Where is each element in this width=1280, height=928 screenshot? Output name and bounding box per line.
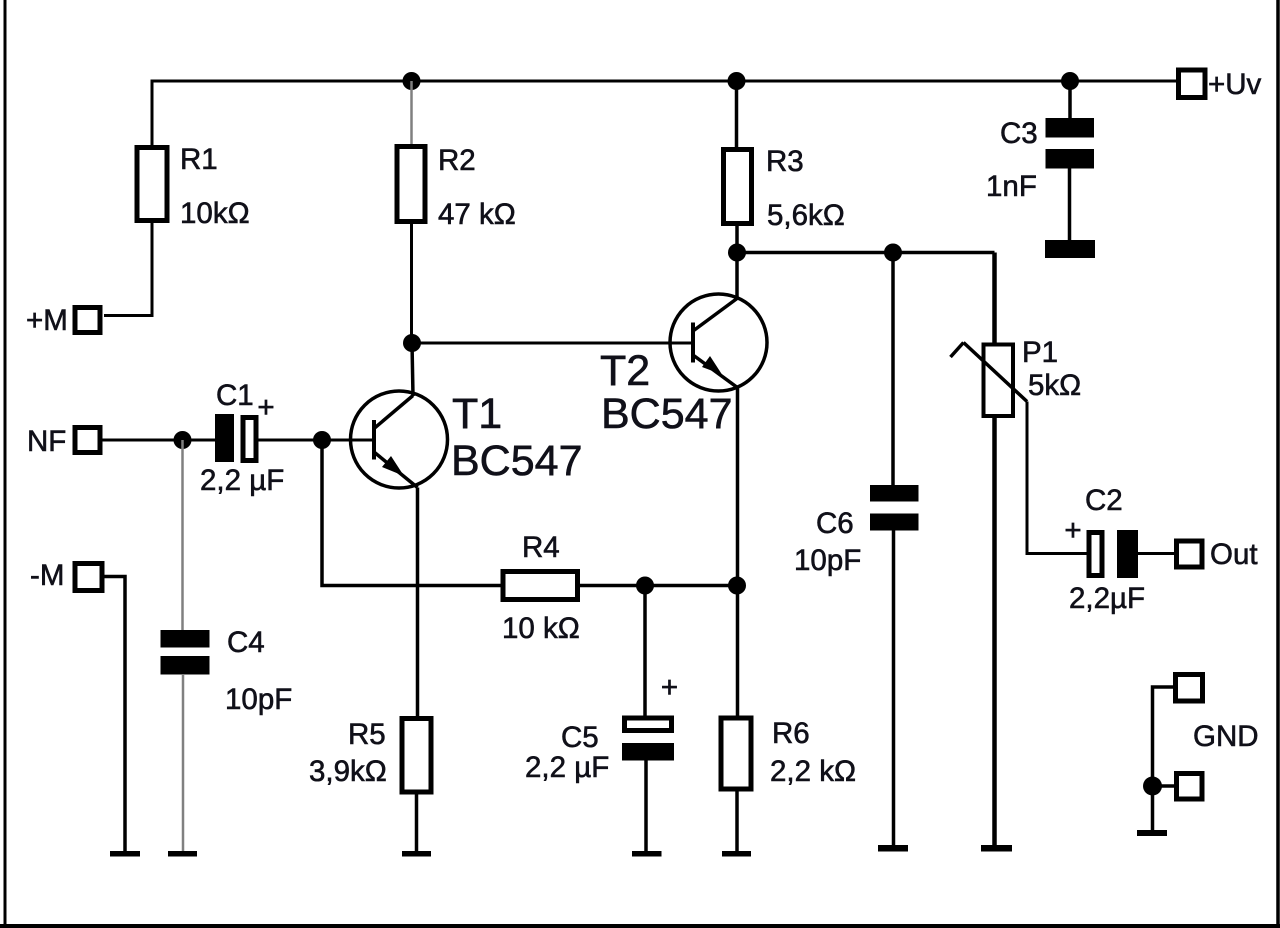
ground bar under R5	[402, 851, 431, 857]
capacitor C3	[986, 81, 1095, 258]
terminal +M	[26, 304, 100, 337]
svg-text:C5: C5	[561, 721, 599, 754]
ground bar under -M	[110, 851, 140, 857]
svg-text:T2: T2	[600, 347, 650, 395]
wire collector row to P1	[737, 251, 995, 255]
wire R6 to ground bar	[735, 789, 739, 851]
ground bar under C5	[632, 851, 662, 857]
svg-text:+: +	[661, 671, 678, 704]
svg-text:C1: C1	[216, 379, 254, 412]
svg-text:NF: NF	[27, 425, 66, 458]
wire node to T2 base	[412, 342, 693, 345]
node on rail above C3	[1061, 72, 1079, 90]
capacitor C4	[161, 626, 293, 716]
wire NF to C1	[103, 439, 216, 442]
ground bar under C4	[168, 851, 197, 857]
terminal GND top square	[1176, 675, 1203, 702]
svg-text:R6: R6	[772, 717, 810, 750]
wire R5 to ground bar	[415, 792, 419, 851]
svg-text:+Uv: +Uv	[1208, 68, 1262, 101]
svg-text:P1: P1	[1022, 336, 1058, 369]
capacitor C6	[794, 253, 919, 846]
terminal Out	[1177, 538, 1258, 571]
svg-text:10pF: 10pF	[794, 544, 861, 577]
node GND	[1143, 777, 1162, 796]
svg-text:10pF: 10pF	[225, 683, 292, 716]
svg-text:1nF: 1nF	[986, 170, 1037, 203]
wire T2 emitter down to R6	[736, 388, 740, 718]
svg-text:BC547: BC547	[451, 437, 582, 485]
node T1 base	[313, 431, 331, 449]
svg-text:3,9kΩ: 3,9kΩ	[309, 755, 387, 788]
svg-text:R2: R2	[438, 144, 476, 177]
svg-text:5,6kΩ: 5,6kΩ	[767, 199, 845, 232]
svg-text:Out: Out	[1210, 538, 1258, 571]
resistor R2	[397, 144, 516, 231]
wire grey NF node to C4	[181, 440, 184, 631]
svg-text:BC547: BC547	[601, 390, 732, 438]
wire R3 to collector node	[735, 222, 739, 253]
svg-text:C6: C6	[816, 507, 854, 540]
svg-text:2,2 µF: 2,2 µF	[200, 464, 284, 497]
node on rail above R3	[728, 72, 746, 90]
transistor T2	[600, 253, 767, 439]
svg-text:2,2µF: 2,2µF	[1069, 582, 1145, 615]
wire P1 wiper to C2	[1027, 402, 1089, 554]
capacitor C2	[1064, 484, 1145, 615]
wire R1 to +M	[104, 221, 152, 316]
wire T1 base down to R4	[322, 440, 503, 586]
capacitor C5	[525, 586, 678, 852]
svg-text:R1: R1	[180, 143, 218, 176]
terminal GND bottom square	[1177, 774, 1203, 800]
wire rail to R3	[735, 81, 739, 148]
node C5 tap	[636, 577, 654, 595]
svg-text:+M: +M	[26, 304, 68, 337]
node T2 collector	[728, 244, 746, 262]
ground bar under C6	[878, 845, 908, 852]
resistor R1	[137, 143, 250, 230]
svg-text:2,2 µF: 2,2 µF	[525, 751, 609, 784]
wire T1 emitter to R5	[416, 488, 420, 719]
svg-text:10 kΩ: 10 kΩ	[502, 612, 580, 645]
wire R2 to T1 collector node	[410, 222, 413, 344]
svg-text:R5: R5	[348, 718, 386, 751]
terminal NF	[27, 425, 100, 458]
resistor R6	[721, 717, 856, 789]
wire C2 to Out	[1138, 552, 1176, 555]
wire grey C4 to ground bar	[182, 674, 185, 851]
ground bar GND	[1137, 830, 1167, 836]
resistor R4	[502, 531, 580, 645]
potentiometer P1	[951, 336, 1082, 416]
node on rail above R2	[403, 72, 421, 90]
resistor R5	[309, 718, 431, 792]
node T1 collector / T2 base	[403, 334, 421, 352]
svg-text:GND: GND	[1193, 720, 1259, 753]
svg-text:10kΩ: 10kΩ	[180, 197, 250, 230]
svg-text:5kΩ: 5kΩ	[1028, 369, 1081, 402]
svg-text:-M: -M	[30, 559, 64, 592]
svg-text:+: +	[1064, 514, 1081, 547]
svg-text:R3: R3	[766, 145, 804, 178]
svg-text:C3: C3	[1000, 117, 1038, 150]
svg-text:C2: C2	[1085, 484, 1123, 517]
wire C1 to T1 base	[259, 439, 375, 442]
resistor R3	[724, 145, 845, 232]
wire +Uv top rail	[152, 81, 1176, 145]
node NF / C4 tap	[174, 431, 192, 449]
node C6 tap	[884, 244, 902, 262]
svg-text:T1: T1	[452, 390, 502, 438]
svg-text:2,2 kΩ: 2,2 kΩ	[770, 755, 856, 788]
ground bar under R6	[722, 851, 751, 857]
transistor T1	[351, 343, 583, 488]
wire R4 right to T2 emitter	[578, 584, 738, 588]
ground bar under P1	[981, 845, 1012, 852]
node R6 top	[728, 577, 746, 595]
terminal -M	[30, 559, 102, 592]
wire -M down	[105, 577, 126, 852]
wire P1 bottom to ground bar	[992, 416, 997, 845]
svg-text:C4: C4	[227, 626, 265, 659]
wire grey rail to R2	[410, 81, 413, 147]
svg-text:R4: R4	[522, 531, 560, 564]
wire GND squares to ground	[1153, 687, 1174, 830]
capacitor C1	[200, 379, 284, 497]
svg-text:+: +	[257, 391, 274, 424]
terminal +Uv	[1179, 68, 1262, 101]
svg-text:47 kΩ: 47 kΩ	[438, 198, 516, 231]
wire GND node to bottom square	[1153, 784, 1175, 788]
